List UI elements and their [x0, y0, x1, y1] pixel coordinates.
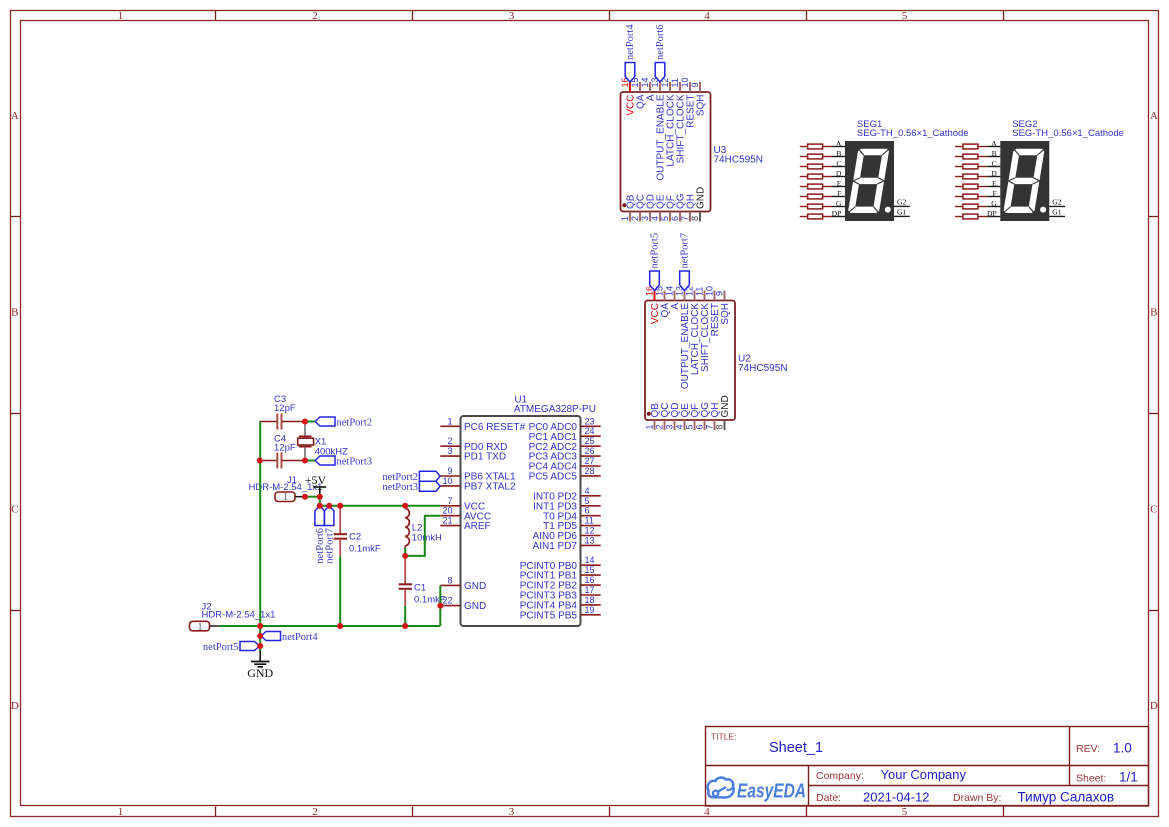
svg-text:DP: DP	[987, 209, 997, 218]
wire netPort2 to junction	[305, 421, 315, 423]
svg-text:26: 26	[585, 446, 595, 456]
svg-text:1: 1	[620, 216, 630, 221]
svg-text:18: 18	[585, 595, 595, 605]
junction dot 12	[257, 623, 263, 629]
net port netPort7 on VCC rail	[324, 506, 335, 564]
svg-text:SEG-TH_0.56×1_Cathode: SEG-TH_0.56×1_Cathode	[1012, 128, 1124, 139]
svg-text:2: 2	[630, 216, 640, 221]
junction dot 16	[257, 643, 263, 649]
U2 top pins 16-9	[655, 291, 725, 301]
capacitor C1 0.1mkF	[399, 556, 446, 606]
display SEG1 body	[845, 141, 894, 221]
svg-text:PB7 XTAL2: PB7 XTAL2	[464, 482, 516, 493]
net port netPort3 at U1 pin 10	[382, 481, 440, 493]
net port netPort6	[655, 24, 666, 82]
svg-text:2: 2	[312, 10, 318, 22]
svg-text:GND: GND	[720, 395, 731, 417]
U3 bottom pin names QB-QH GND	[626, 187, 707, 209]
junction dot 8	[337, 503, 343, 509]
svg-text:20: 20	[442, 506, 452, 516]
svg-text:GND: GND	[464, 601, 486, 612]
svg-text:B: B	[11, 307, 18, 319]
svg-text:7: 7	[680, 216, 690, 221]
svg-text:C: C	[992, 159, 997, 168]
svg-text:12pF: 12pF	[274, 403, 296, 414]
EasyEDA logo	[708, 778, 806, 803]
wire C2 down to ground rail	[339, 556, 341, 626]
svg-text:16: 16	[620, 77, 630, 87]
junction dot 14	[402, 623, 408, 629]
svg-text:B: B	[836, 149, 841, 158]
svg-text:1: 1	[118, 806, 124, 818]
U1 right pin numbers	[585, 416, 595, 615]
U2 top pin names VCC QA A OUTPUT_ENABLE LATCH_CLOCK SHIFT_CLOCK RESET SQH	[650, 303, 731, 389]
svg-text:14: 14	[640, 77, 650, 87]
svg-text:netPort4: netPort4	[282, 632, 318, 643]
svg-text:2: 2	[447, 436, 452, 446]
net port netPort4	[625, 24, 636, 82]
svg-text:14: 14	[665, 286, 675, 296]
U2 bottom pins 1-8	[655, 420, 725, 430]
svg-text:C1: C1	[414, 583, 426, 594]
svg-text:REV:: REV:	[1076, 743, 1100, 755]
svg-text:EasyEDA: EasyEDA	[737, 781, 806, 803]
svg-text:Company:: Company:	[816, 770, 864, 782]
svg-text:16: 16	[585, 575, 595, 585]
svg-text:Date:: Date:	[816, 792, 841, 804]
svg-text:netPort6: netPort6	[655, 24, 666, 60]
svg-text:10: 10	[705, 286, 715, 296]
SEG2 left pins A B C D E F G DP with pin boxes	[955, 139, 1000, 219]
svg-text:E: E	[837, 179, 842, 188]
U3 top pin numbers 16-9	[620, 77, 700, 87]
svg-text:4: 4	[704, 10, 710, 22]
connector J1 HDR-M-2.54_1x1	[249, 475, 323, 503]
crystal X1 400kHZ	[298, 422, 348, 461]
svg-text:19: 19	[585, 605, 595, 615]
display SEG2 body	[1000, 141, 1049, 221]
svg-text:4: 4	[585, 486, 590, 496]
svg-text:12: 12	[585, 526, 595, 536]
junction dot 6	[317, 503, 323, 509]
svg-text:PD1 TXD: PD1 TXD	[464, 452, 506, 463]
svg-text:12pF: 12pF	[274, 443, 296, 454]
junction dot 5	[317, 494, 323, 500]
junction dot 10	[402, 553, 408, 559]
svg-text:27: 27	[585, 456, 595, 466]
svg-text:5: 5	[660, 216, 670, 221]
svg-text:9: 9	[447, 466, 452, 476]
SEG1 decimal point dot	[885, 207, 891, 213]
svg-text:25: 25	[585, 436, 595, 446]
svg-text:PC5 ADC5: PC5 ADC5	[529, 472, 578, 483]
wire +5V down to VCC rail	[319, 497, 321, 506]
svg-text:Drawn By:: Drawn By:	[953, 792, 1001, 804]
svg-text:Your Company: Your Company	[881, 767, 967, 782]
net port netPort2 at crystal	[315, 417, 372, 428]
svg-text:E: E	[992, 179, 997, 188]
svg-text:5: 5	[902, 806, 908, 818]
svg-text:1: 1	[645, 425, 655, 430]
svg-text:16: 16	[645, 286, 655, 296]
svg-text:D: D	[991, 169, 997, 178]
junction dot 7	[326, 503, 332, 509]
svg-text:GND: GND	[696, 187, 707, 209]
svg-text:C2: C2	[349, 531, 361, 542]
svg-text:Sheet_1: Sheet_1	[769, 740, 823, 756]
svg-text:11: 11	[695, 287, 705, 296]
ground symbol GND	[247, 651, 273, 680]
U3 top pins 16-9	[630, 82, 700, 92]
svg-text:13: 13	[675, 286, 685, 296]
svg-text:GND: GND	[464, 581, 486, 592]
svg-text:10: 10	[680, 77, 690, 87]
SEG2 segment digit glyph	[1003, 149, 1045, 213]
svg-text:netPort2: netPort2	[337, 417, 373, 428]
svg-text:15: 15	[585, 565, 595, 575]
svg-text:10mkH: 10mkH	[412, 532, 442, 543]
IC U2 74HC595N body	[645, 301, 735, 421]
svg-text:SQH: SQH	[696, 95, 707, 117]
svg-text:3: 3	[509, 10, 515, 22]
wire netPort3 to junction	[305, 460, 315, 462]
svg-text:netPort5: netPort5	[650, 233, 661, 269]
svg-text:2021-04-12: 2021-04-12	[863, 790, 930, 805]
svg-text:C: C	[1150, 504, 1157, 516]
svg-text:5: 5	[685, 425, 695, 430]
net port netPort4 on ground branch	[261, 632, 318, 643]
svg-text:6: 6	[585, 506, 590, 516]
U2 top pin numbers 16-9	[645, 286, 725, 296]
svg-text:Sheet:: Sheet:	[1076, 773, 1106, 785]
SEG2 decimal point dot	[1040, 207, 1046, 213]
svg-text:netPort5: netPort5	[203, 642, 239, 653]
capacitor C4 12pF	[260, 434, 305, 469]
capacitor C3 12pF	[260, 394, 305, 430]
svg-text:D: D	[11, 700, 19, 712]
svg-text:4: 4	[704, 806, 710, 818]
svg-text:8: 8	[715, 425, 725, 430]
SEG2 right pins G2 G1	[1049, 198, 1065, 217]
svg-text:4: 4	[650, 216, 660, 221]
wire J1 to +5V	[305, 496, 320, 498]
svg-text:7: 7	[705, 425, 715, 430]
U1 right pin names	[520, 422, 578, 622]
U3 bottom pin numbers 1-8	[620, 216, 700, 221]
junction dot 4	[302, 494, 308, 500]
svg-text:A: A	[1150, 110, 1158, 122]
svg-text:G: G	[836, 199, 842, 208]
svg-text:G1: G1	[897, 208, 906, 217]
net port netPort5 on ground branch	[203, 642, 260, 653]
svg-text:21: 21	[442, 516, 452, 526]
svg-text:ATMEGA328P-PU: ATMEGA328P-PU	[514, 404, 596, 415]
svg-text:6: 6	[695, 425, 705, 430]
svg-text:8: 8	[690, 216, 700, 221]
svg-text:24: 24	[585, 426, 595, 436]
svg-text:netPort7: netPort7	[324, 528, 335, 564]
svg-text:netPort4: netPort4	[625, 24, 636, 60]
svg-text:1: 1	[447, 416, 452, 426]
svg-text:1.0: 1.0	[1113, 741, 1132, 756]
svg-text:netPort3: netPort3	[382, 482, 418, 493]
svg-text:23: 23	[585, 416, 595, 426]
svg-text:A: A	[11, 110, 19, 122]
svg-text:28: 28	[585, 466, 595, 476]
svg-text:HDR-M-2.54_1x1: HDR-M-2.54_1x1	[202, 610, 276, 621]
svg-text:Тимур Салахов: Тимур Салахов	[1018, 790, 1115, 805]
U1 left pins	[440, 426, 460, 605]
U3 bottom pins 1-8	[630, 212, 700, 222]
svg-text:2: 2	[312, 806, 318, 818]
svg-text:netPort3: netPort3	[337, 456, 373, 467]
svg-text:9: 9	[690, 82, 700, 87]
inductor L2 10mkH	[405, 506, 442, 548]
svg-text:+5V: +5V	[305, 473, 327, 487]
svg-text:1: 1	[198, 622, 203, 633]
net port netPort3 at crystal	[315, 456, 372, 467]
junction dot 3	[257, 458, 263, 464]
U1 left pin names	[464, 422, 526, 612]
U3 top pin names VCC QA A OUTPUT_ENABLE LATCH_CLOCK SHIFT_CLOCK RESET SQH	[626, 94, 707, 180]
capacitor C2 0.1mkF	[334, 506, 381, 556]
net port netPort2 at U1 pin 9	[382, 471, 440, 483]
svg-text:11: 11	[585, 516, 594, 526]
U1 left pin numbers	[442, 416, 452, 605]
wire U1 pin8 GND down	[439, 585, 441, 626]
svg-text:F: F	[837, 189, 841, 198]
svg-text:C: C	[11, 504, 18, 516]
junction dot 2	[302, 458, 308, 464]
SEG1 right pins G2 G1	[894, 198, 910, 217]
junction dot 15	[257, 633, 263, 639]
svg-text:6: 6	[670, 216, 680, 221]
SEG1 segment digit glyph	[848, 149, 890, 213]
svg-text:10: 10	[442, 476, 452, 486]
svg-text:74HC595N: 74HC595N	[714, 155, 763, 166]
svg-text:PC6 RESET#: PC6 RESET#	[464, 422, 526, 433]
svg-text:3: 3	[640, 216, 650, 221]
svg-text:PCINT5 PB5: PCINT5 PB5	[520, 610, 578, 621]
net port netPort6 on VCC rail	[315, 506, 326, 564]
svg-text:1/1: 1/1	[1119, 770, 1138, 785]
junction dot 11	[437, 603, 443, 609]
connector J2 HDR-M-2.54_1x1	[190, 602, 276, 633]
net port netPort7	[680, 233, 691, 291]
svg-text:B: B	[992, 149, 997, 158]
net port netPort5	[650, 233, 661, 291]
svg-text:14: 14	[585, 555, 595, 565]
wire GND vertical from C3 to ground symbol	[259, 422, 261, 651]
svg-text:D: D	[1150, 700, 1158, 712]
svg-text:AIN1 PD7: AIN1 PD7	[533, 541, 578, 552]
U2 bottom pin names QB-QH GND	[650, 395, 731, 417]
wire L2 to AVCC junction	[404, 548, 406, 556]
svg-text:AREF: AREF	[464, 521, 491, 532]
svg-text:GND: GND	[247, 666, 273, 680]
U1 right pins	[581, 426, 601, 615]
svg-text:1: 1	[118, 10, 124, 22]
wire C1 down to ground rail	[404, 606, 406, 626]
title block	[706, 727, 1149, 807]
svg-text:G1: G1	[1052, 208, 1061, 217]
svg-text:8: 8	[447, 575, 452, 585]
SEG1 left pins A B C D E F G DP with pin boxes	[800, 139, 845, 219]
svg-text:11: 11	[670, 78, 680, 87]
svg-text:D: D	[836, 169, 842, 178]
junction dot 1	[302, 419, 308, 425]
power flag +5V	[305, 473, 327, 497]
svg-text:3: 3	[447, 446, 452, 456]
svg-text:74HC595N: 74HC595N	[738, 363, 787, 374]
IC U3 74HC595N body	[621, 92, 711, 212]
wire ground rail horizontal	[220, 625, 440, 627]
svg-text:13: 13	[585, 535, 595, 545]
svg-text:0.1mkF: 0.1mkF	[349, 543, 381, 554]
svg-text:3: 3	[509, 806, 515, 818]
svg-text:DP: DP	[832, 209, 842, 218]
svg-text:F: F	[992, 189, 996, 198]
svg-text:G2: G2	[1052, 198, 1061, 207]
junction dot 9	[402, 503, 408, 509]
svg-text:A: A	[836, 139, 842, 148]
svg-text:SEG-TH_0.56×1_Cathode: SEG-TH_0.56×1_Cathode	[857, 128, 969, 139]
IC U1 ATMEGA328P-PU body	[461, 416, 581, 626]
U2 bottom pin numbers 1-8	[645, 425, 725, 430]
svg-text:5: 5	[585, 496, 590, 506]
svg-text:17: 17	[585, 585, 595, 595]
svg-text:2: 2	[655, 425, 665, 430]
svg-text:7: 7	[447, 496, 452, 506]
svg-text:TITLE:: TITLE:	[711, 732, 737, 742]
wire VCC rail horizontal to U1 pin 7	[320, 505, 441, 507]
svg-text:3: 3	[665, 425, 675, 430]
svg-text:B: B	[1150, 307, 1157, 319]
svg-text:G2: G2	[897, 198, 906, 207]
wire AVCC branch	[405, 516, 440, 556]
junction dot 13	[337, 623, 343, 629]
svg-text:5: 5	[902, 10, 908, 22]
svg-text:SQH: SQH	[720, 303, 731, 325]
svg-text:A: A	[991, 139, 997, 148]
svg-text:1: 1	[283, 492, 288, 503]
svg-text:G: G	[991, 199, 997, 208]
svg-text:9: 9	[715, 291, 725, 296]
svg-text:C: C	[836, 159, 841, 168]
svg-text:13: 13	[650, 77, 660, 87]
svg-text:4: 4	[675, 425, 685, 430]
svg-text:netPort7: netPort7	[680, 233, 691, 269]
